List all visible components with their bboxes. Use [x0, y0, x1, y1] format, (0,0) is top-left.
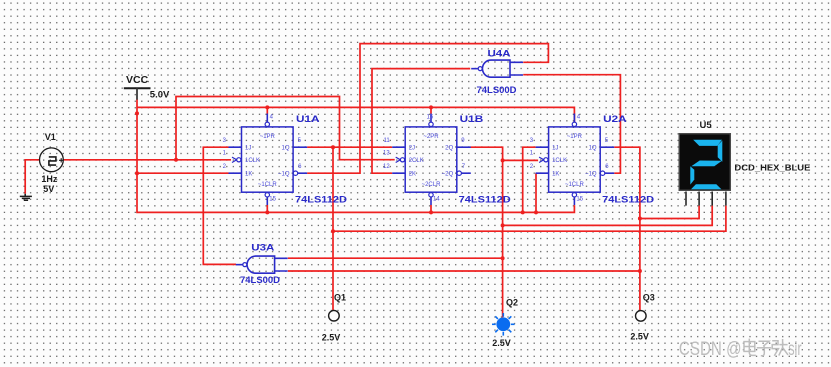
svg-text:2CLK: 2CLK: [409, 158, 424, 164]
svg-text:~2PR: ~2PR: [423, 134, 439, 140]
svg-text:2Q: 2Q: [445, 146, 453, 152]
svg-text:1K: 1K: [245, 172, 252, 178]
svg-text:CSDN @: CSDN @: [679, 339, 742, 360]
svg-text:U1A: U1A: [296, 114, 320, 125]
svg-text:Q2: Q2: [506, 298, 518, 308]
svg-text:~2Q: ~2Q: [442, 172, 454, 178]
svg-text:74LS112D: 74LS112D: [459, 195, 511, 206]
svg-text:2.5V: 2.5V: [630, 332, 649, 342]
svg-text:2K: 2K: [409, 172, 416, 178]
svg-text:DCD_HEX_BLUE: DCD_HEX_BLUE: [734, 163, 810, 173]
svg-text:2J: 2J: [409, 146, 415, 152]
svg-text:14: 14: [433, 196, 440, 202]
svg-text:U5: U5: [700, 120, 713, 131]
svg-text:1K: 1K: [552, 172, 559, 178]
svg-text:1Q: 1Q: [281, 146, 289, 152]
svg-text:Q3: Q3: [643, 293, 655, 303]
svg-text:5V: 5V: [43, 184, 54, 194]
svg-text:U3A: U3A: [251, 243, 274, 254]
svg-text:15: 15: [576, 196, 583, 202]
svg-text:5.0V: 5.0V: [150, 90, 170, 101]
svg-text:74LS00D: 74LS00D: [477, 85, 517, 96]
svg-text:1CLK: 1CLK: [245, 158, 260, 164]
svg-text:1Q: 1Q: [589, 146, 597, 152]
svg-text:74LS112D: 74LS112D: [602, 195, 654, 206]
svg-text:Q1: Q1: [334, 293, 346, 303]
svg-text:~2CLR: ~2CLR: [422, 182, 442, 188]
svg-text:1J: 1J: [552, 146, 558, 152]
svg-text:11: 11: [383, 138, 390, 144]
svg-text:13: 13: [383, 151, 390, 157]
svg-text:1CLK: 1CLK: [552, 158, 567, 164]
svg-text:~1Q: ~1Q: [278, 172, 290, 178]
svg-text:~1Q: ~1Q: [585, 172, 597, 178]
svg-text:2.5V: 2.5V: [322, 333, 341, 343]
svg-text:VCC: VCC: [126, 74, 149, 86]
svg-text:2.5V: 2.5V: [492, 338, 511, 348]
svg-text:V1: V1: [45, 132, 56, 142]
svg-text:~1CLR: ~1CLR: [258, 182, 278, 188]
svg-text:~1PR: ~1PR: [260, 134, 276, 140]
svg-text:1J: 1J: [245, 146, 251, 152]
svg-text:16: 16: [427, 114, 434, 120]
svg-text:74LS00D: 74LS00D: [240, 275, 280, 286]
svg-text:12: 12: [383, 164, 390, 170]
svg-text:74LS112D: 74LS112D: [295, 195, 347, 206]
svg-text:~1CLR: ~1CLR: [565, 182, 585, 188]
svg-text:1Hz: 1Hz: [41, 174, 58, 184]
svg-text:U1B: U1B: [460, 114, 484, 125]
svg-text:U2A: U2A: [603, 114, 627, 125]
svg-text:sir: sir: [788, 339, 802, 360]
svg-text:~1PR: ~1PR: [567, 134, 583, 140]
svg-text:U4A: U4A: [488, 49, 511, 60]
svg-text:15: 15: [269, 196, 276, 202]
